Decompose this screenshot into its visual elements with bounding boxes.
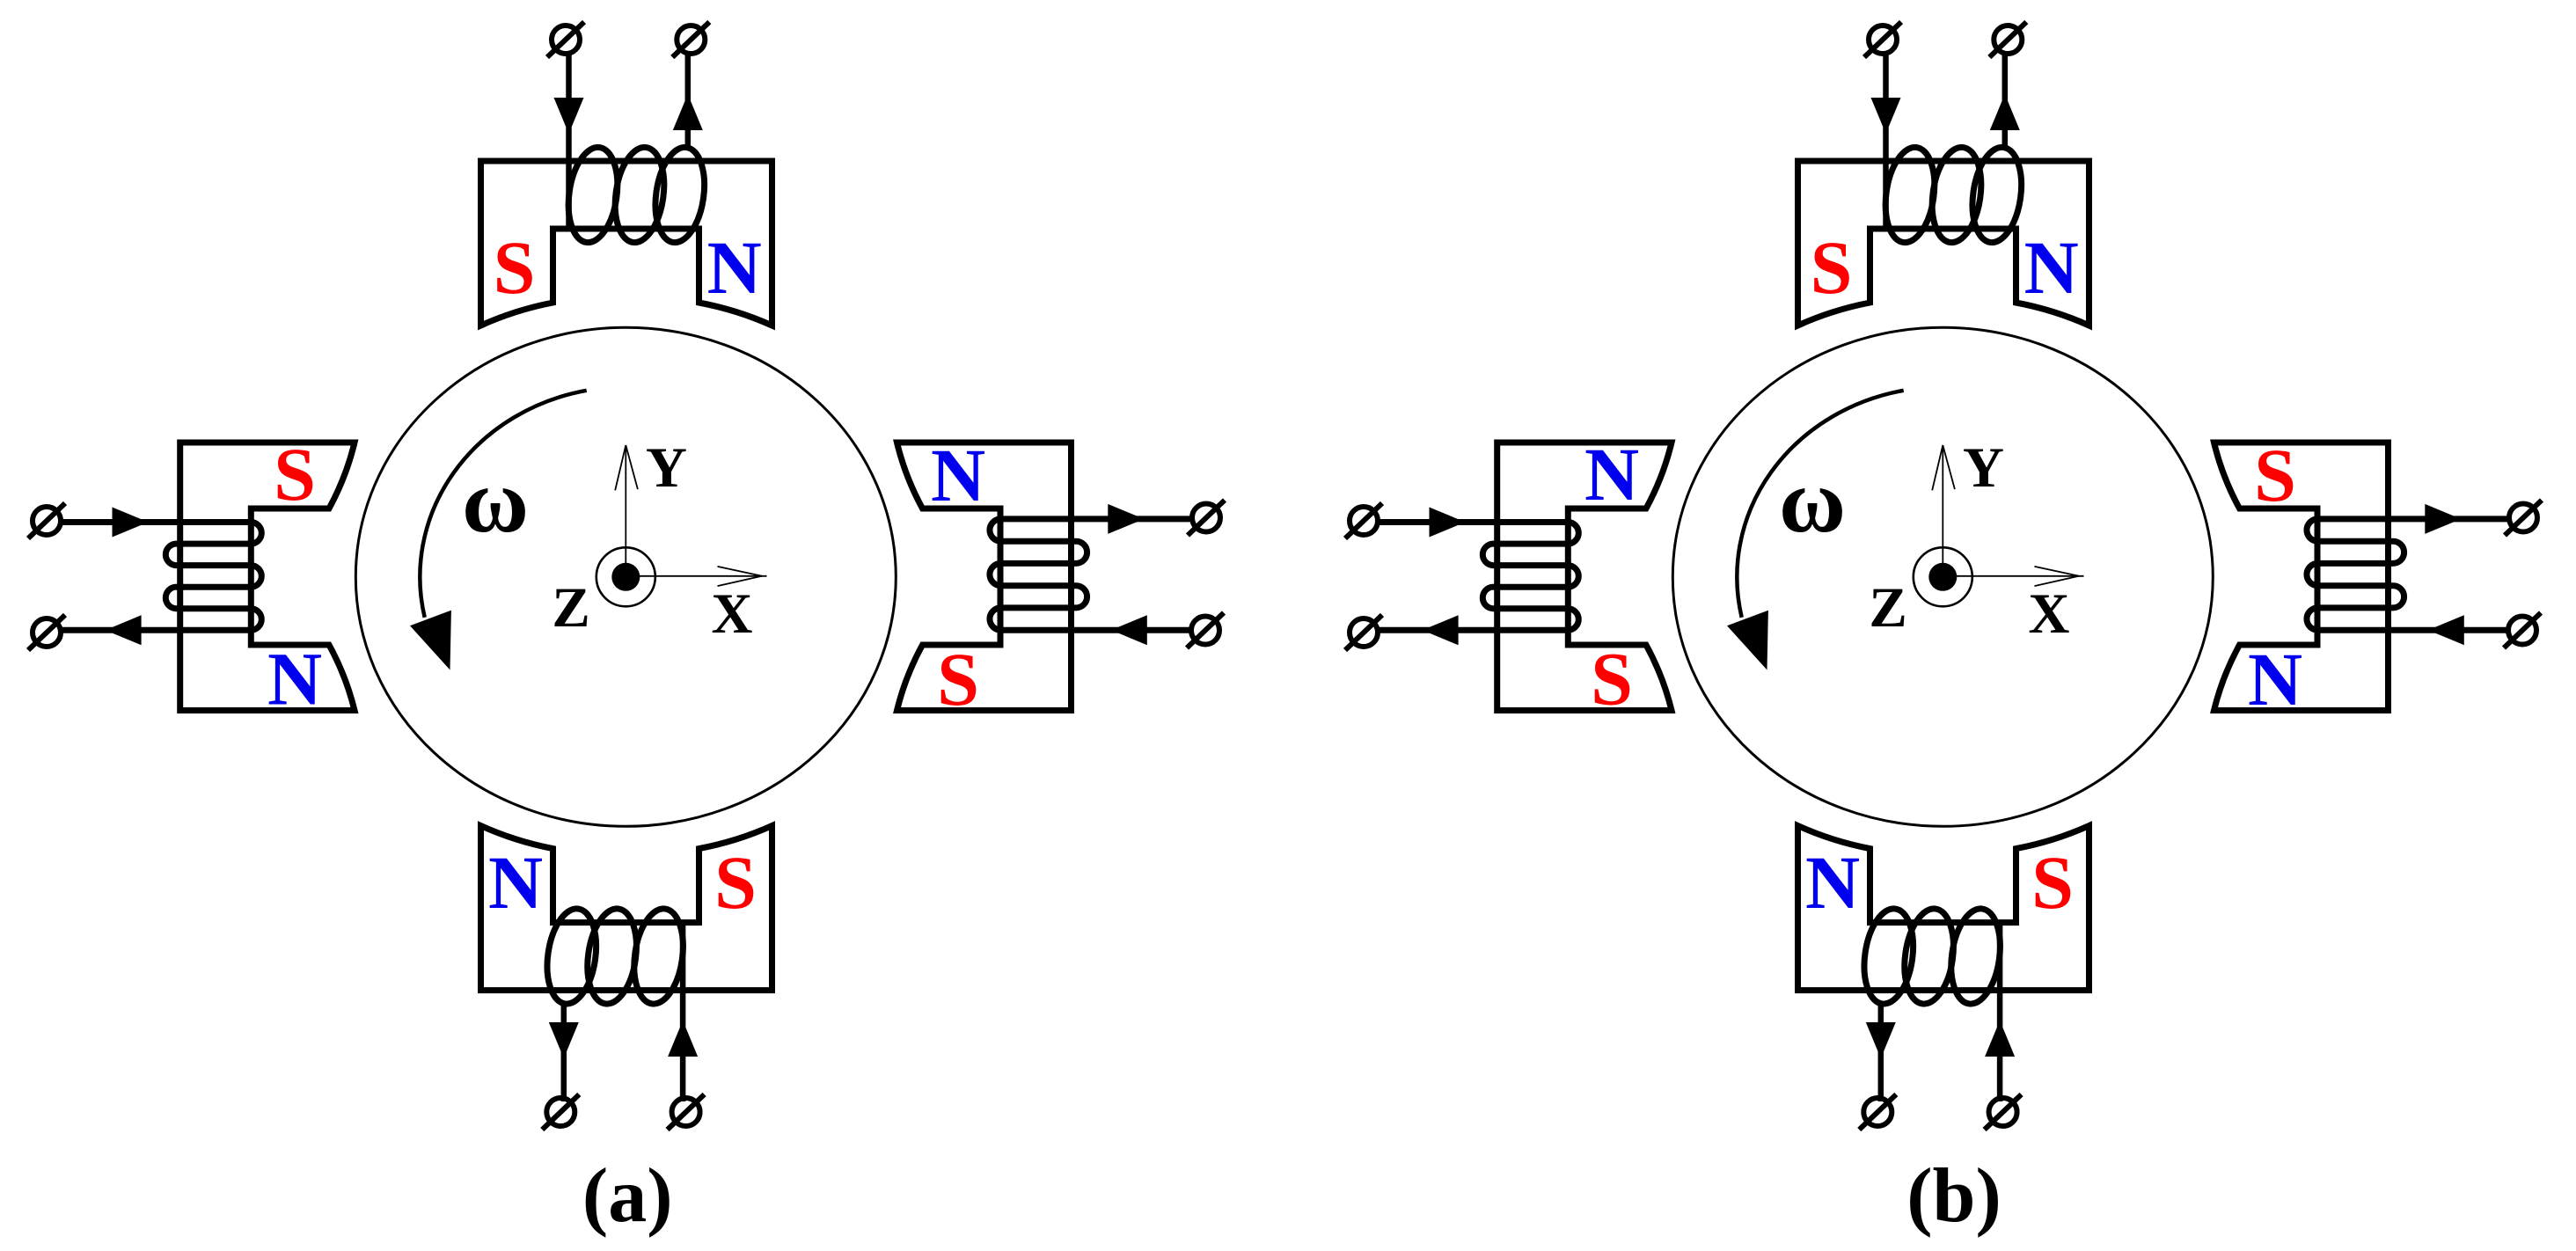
bottom pole left wire (current out) (b) [1878,1004,1884,1101]
right pole top wire arrow (right) (b) [2425,504,2461,534]
axis origin Z dot (b) [1928,563,1957,591]
bottom pole right terminal (b) [1989,1098,2017,1126]
svg-text:N: N [2024,225,2079,310]
top pole coil (b) [1880,144,1941,245]
right pole top terminal (b) [2509,504,2537,532]
bottom pole right terminal (a) [672,1098,700,1126]
top pole right wire arrow (up) (b) [1990,94,2020,130]
right pole coil and leads (a) [990,519,1190,630]
svg-text:S: S [937,637,979,721]
right pole bottom terminal (b) [2508,617,2536,645]
right pole top terminal (a) [1192,504,1220,532]
left pole coil and leads (a) [61,523,261,631]
top pole left terminal (b) [1869,26,1897,54]
left pole top wire arrow (right) (a) [113,508,149,538]
svg-text:S: S [1591,637,1633,721]
right pole bottom wire arrow (left) (a) [1111,615,1147,645]
svg-text:N: N [707,225,762,310]
bottom pole right wire arrow (up) (a) [668,1021,698,1057]
top pole left wire (current in) (a) [566,51,572,230]
Y axis line (a) [625,445,626,577]
svg-text:X: X [2029,582,2070,646]
bottom pole coil (a) [628,905,689,1006]
bottom pole right wire (current in) (b) [1997,921,2003,1102]
top pole left wire arrow (down) (b) [1871,98,1901,134]
rotor disc (a) [355,327,896,826]
right pole bottom terminal (a) [1191,617,1219,645]
right pole bottom wire arrow (left) (b) [2428,615,2464,645]
bottom stator pole core (a) [481,826,772,991]
right stator pole core (b) [2214,443,2389,711]
left pole coil and leads (b) [1378,523,1578,631]
svg-text:(a): (a) [582,1153,673,1239]
svg-text:N: N [267,637,322,721]
X axis arrowhead (b) [2035,567,2080,576]
Y axis line (b) [1942,445,1943,577]
left pole top terminal (b) [1350,507,1378,535]
axis origin Z dot (a) [611,563,640,591]
top pole right wire arrow (up) (a) [673,94,703,130]
bottom pole left wire (current out) (a) [561,1004,567,1101]
svg-text:ω: ω [462,450,529,552]
left pole bottom terminal (a) [33,618,61,647]
bottom pole left terminal (b) [1863,1098,1892,1126]
X axis line (a) [626,575,766,577]
svg-text:ω: ω [1779,450,1846,552]
X axis arrowhead (a) [718,567,763,576]
top pole right terminal (a) [677,26,705,54]
bottom pole left terminal (a) [546,1098,574,1126]
svg-text:Z: Z [1869,576,1906,640]
rotation arrow head (b) [1727,611,1768,670]
svg-text:(b): (b) [1906,1153,2002,1239]
top pole left wire (current in) (b) [1883,51,1889,230]
left pole top terminal (a) [33,507,61,535]
svg-text:N: N [488,840,543,925]
svg-text:S: S [274,432,316,516]
top pole left wire arrow (down) (a) [554,98,584,134]
bottom pole right wire (current in) (a) [680,921,686,1102]
svg-text:N: N [1584,432,1639,516]
axis origin outer circle (a) [596,547,655,606]
top stator pole core (a) [481,161,772,326]
top stator pole core (b) [1798,161,2089,326]
top pole left terminal (a) [552,26,580,54]
left stator pole core (b) [1497,443,1672,711]
svg-text:N: N [1805,840,1860,925]
left pole bottom wire arrow (left) (b) [1423,615,1459,645]
svg-text:S: S [2031,840,2074,925]
svg-text:S: S [494,225,536,310]
svg-text:Z: Z [552,576,589,640]
svg-text:S: S [714,840,757,925]
axis origin outer circle (b) [1914,547,1972,606]
left stator pole core (a) [180,443,355,711]
right pole coil and leads (b) [2307,519,2507,630]
top pole right wire (current out) (a) [685,51,692,148]
right pole top wire arrow (right) (a) [1108,504,1144,534]
svg-text:N: N [2248,637,2302,721]
Y axis arrowhead (b) [1932,445,1943,490]
rotation arrow head (a) [410,611,451,670]
svg-text:Y: Y [646,436,687,500]
bottom pole right wire arrow (up) (b) [1985,1021,2015,1057]
bottom pole left wire arrow (down) (b) [1866,1022,1896,1058]
left pole bottom wire arrow (left) (a) [106,615,142,645]
svg-text:X: X [712,582,753,646]
rotation arrow omega arc (a) [420,391,586,618]
Y axis arrowhead (a) [615,445,626,490]
svg-text:N: N [931,433,985,517]
rotor disc (b) [1672,327,2213,826]
bottom pole left wire arrow (down) (a) [549,1022,579,1058]
X axis line (b) [1943,575,2083,577]
top pole right wire (current out) (b) [2002,51,2009,148]
rotation arrow omega arc (b) [1737,391,1903,618]
svg-text:S: S [2254,433,2296,517]
bottom pole coil (b) [1945,905,2006,1006]
left pole bottom terminal (b) [1350,618,1378,647]
svg-text:S: S [1811,225,1853,310]
right stator pole core (a) [897,443,1072,711]
left pole top wire arrow (right) (b) [1430,508,1466,538]
svg-text:Y: Y [1963,436,2004,500]
bottom stator pole core (b) [1798,826,2089,991]
top pole right terminal (b) [1994,26,2022,54]
top pole coil (a) [563,144,624,245]
